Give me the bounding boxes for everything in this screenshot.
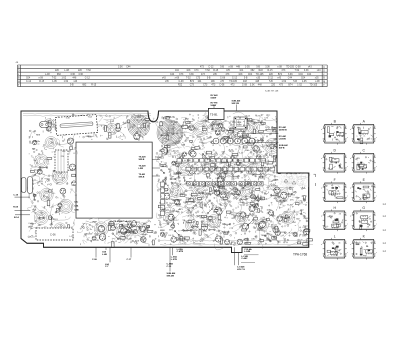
coil L1 dashed box [55, 115, 97, 136]
ref diagram C [350, 148, 377, 173]
svg-text:5-B: 5-B [220, 67, 224, 69]
svg-text:c: c [376, 137, 377, 139]
transistor can [221, 127, 225, 131]
wire leader [109, 247, 111, 262]
svg-text:TD-05: TD-05 [214, 173, 221, 175]
wire leader [237, 253, 239, 266]
svg-text:TPA-1768: TPA-1768 [293, 253, 307, 257]
parts table [18, 65, 328, 87]
svg-text:C-12: C-12 [208, 67, 214, 69]
transistor can [274, 187, 280, 193]
coil trace [281, 211, 294, 224]
pcb board outline [21, 111, 309, 253]
transistor can [224, 170, 228, 174]
svg-text:1-52: 1-52 [62, 77, 67, 79]
wire leader [171, 247, 173, 255]
transistor can [84, 123, 88, 127]
transistor can [33, 140, 37, 144]
svg-text:C04: C04 [26, 77, 31, 79]
svg-text:eb: eb [331, 162, 333, 164]
transistor can [216, 209, 222, 215]
transistor can [86, 116, 92, 122]
transistor can [297, 179, 303, 185]
svg-text:G: G [362, 206, 365, 210]
transistor can [254, 204, 258, 208]
solder pads [28, 113, 308, 245]
coil trace [157, 120, 183, 146]
svg-text:SW-5W: SW-5W [167, 275, 175, 277]
transistor can [116, 127, 121, 132]
resistor column band [161, 182, 165, 216]
svg-text:TS463: TS463 [121, 226, 128, 228]
svg-text:F: F [334, 178, 336, 182]
transistor can [241, 212, 246, 217]
coil trace [34, 154, 48, 168]
transistor can [301, 152, 306, 157]
svg-text:1-05: 1-05 [245, 67, 250, 69]
svg-text:c: c [376, 166, 377, 168]
svg-text:T5-B: T5-B [287, 205, 292, 207]
coil trace [40, 188, 53, 201]
svg-text:3.3K: 3.3K [195, 174, 200, 176]
transistor can [218, 123, 222, 127]
wire leader [15, 196, 31, 198]
svg-text:C-12: C-12 [232, 77, 238, 79]
svg-text:B-14: B-14 [14, 216, 20, 219]
svg-text:eb: eb [336, 255, 338, 257]
svg-text:T5-B: T5-B [32, 210, 37, 212]
svg-text:948B: 948B [237, 124, 242, 126]
svg-text:TD-105: TD-105 [229, 81, 237, 83]
transistor can [224, 137, 230, 143]
svg-text:a: a [356, 136, 357, 138]
svg-text:47K: 47K [242, 165, 246, 167]
transistor can [249, 206, 255, 212]
svg-text:TS463: TS463 [173, 174, 180, 176]
svg-text:x-08: x-08 [228, 67, 233, 69]
svg-text:C-12: C-12 [167, 266, 173, 268]
coil trace [117, 224, 131, 238]
svg-text:47K: 47K [260, 173, 264, 175]
svg-text:a: a [360, 217, 361, 219]
transistor can [72, 181, 77, 186]
coil trace [177, 162, 191, 176]
transistor can [233, 187, 237, 191]
svg-text:L-08: L-08 [45, 74, 50, 76]
transistor can [259, 223, 265, 229]
svg-text:C04: C04 [248, 74, 253, 76]
coil trace [164, 212, 174, 222]
svg-text:3.3K: 3.3K [273, 189, 278, 191]
svg-text:TD-105: TD-105 [310, 85, 318, 87]
svg-text:R-08: R-08 [13, 207, 19, 209]
transistor can [273, 227, 279, 233]
svg-text:SW: SW [141, 239, 144, 241]
svg-text:c: c [347, 166, 348, 168]
transistor can [237, 162, 241, 166]
svg-text:a: a [321, 188, 322, 190]
svg-text:5-B: 5-B [269, 81, 273, 83]
transistor can [215, 207, 221, 213]
coil L2 dashed box [55, 150, 68, 172]
svg-text:C44: C44 [307, 74, 312, 76]
svg-text:T-52: T-52 [186, 77, 191, 79]
transistor can [217, 177, 223, 183]
svg-text:3.3K: 3.3K [70, 74, 75, 76]
svg-text:47K: 47K [95, 240, 99, 242]
svg-text:SW: SW [118, 239, 121, 241]
svg-text:TD-05: TD-05 [173, 211, 180, 213]
coil trace [137, 223, 149, 235]
svg-text:TS463: TS463 [236, 160, 243, 162]
capacitor C-06 dashed box [36, 228, 73, 240]
svg-text:TD-105: TD-105 [286, 67, 294, 69]
coil trace [257, 219, 269, 231]
wire leader [152, 175, 160, 177]
transistor can [189, 125, 194, 130]
svg-text:TD-05: TD-05 [180, 239, 187, 241]
svg-text:a: a [321, 129, 322, 131]
svg-text:C-08: C-08 [242, 85, 248, 87]
transistor can [277, 216, 282, 221]
svg-text:L-4B: L-4B [102, 253, 107, 256]
wire leader [152, 167, 160, 169]
transistor can [298, 177, 302, 181]
svg-text:47K: 47K [226, 70, 231, 72]
ref diagram K [350, 234, 377, 259]
coil trace [245, 163, 257, 175]
svg-text:10K: 10K [245, 150, 249, 152]
svg-text:C-08: C-08 [220, 77, 226, 79]
svg-text:3.3K: 3.3K [169, 199, 174, 201]
svg-text:10K: 10K [243, 130, 247, 132]
svg-text:a: a [350, 244, 351, 246]
transistor can [225, 240, 230, 245]
transistor can [237, 239, 242, 244]
transistor TS-07 [140, 226, 146, 232]
transistor can [293, 232, 297, 236]
transistor can [182, 152, 186, 156]
svg-text:c: c [347, 252, 348, 254]
transistor can [215, 130, 220, 135]
wire leader [15, 214, 30, 216]
transistor can [189, 168, 195, 174]
svg-text:SW: SW [162, 209, 165, 211]
svg-text:C-18: C-18 [13, 195, 19, 197]
ref diagram F [321, 178, 348, 203]
svg-text:T5-B: T5-B [212, 121, 217, 123]
transistor can [67, 138, 73, 144]
wire leader [247, 133, 279, 135]
svg-text:eb: eb [338, 243, 340, 245]
ref diagram B [321, 119, 348, 144]
svg-text:3.3K: 3.3K [265, 67, 270, 69]
transistor can [215, 236, 221, 242]
svg-text:5-B: 5-B [256, 67, 260, 69]
coil trace [107, 124, 118, 135]
svg-text:T-52: T-52 [86, 70, 91, 72]
transistor can [189, 150, 195, 156]
transistor can [141, 237, 147, 243]
coil trace [34, 211, 48, 225]
transistor can [269, 211, 274, 216]
svg-text:1-52: 1-52 [282, 81, 287, 83]
svg-text:10K: 10K [247, 119, 251, 121]
transistor can [175, 163, 179, 167]
svg-text:3.3K: 3.3K [189, 74, 194, 76]
svg-text:C-12: C-12 [26, 81, 32, 83]
svg-text:1-05: 1-05 [52, 81, 57, 83]
svg-text:5-B: 5-B [207, 77, 211, 79]
svg-text:TS463: TS463 [52, 219, 59, 221]
svg-text:3.3K: 3.3K [78, 74, 83, 76]
svg-text:TS463: TS463 [86, 234, 93, 236]
svg-text:TD-05: TD-05 [50, 124, 57, 126]
svg-text:TD-05: TD-05 [31, 167, 38, 169]
svg-text:a: a [350, 216, 351, 218]
transistor can [275, 230, 280, 235]
coil trace [220, 190, 230, 200]
svg-text:a: a [321, 216, 322, 218]
svg-text:C-44C: C-44C [241, 257, 248, 260]
svg-text:TD-05: TD-05 [173, 151, 180, 153]
svg-text:a: a [332, 191, 333, 193]
transformer T5-B1 box [208, 108, 224, 119]
transistor can [66, 124, 71, 129]
transistor can [58, 203, 62, 207]
coil trace [128, 115, 150, 137]
svg-text:M: M [323, 81, 325, 83]
svg-text:10K: 10K [88, 137, 92, 139]
svg-text:C-12: C-12 [85, 77, 91, 79]
svg-text:x-08: x-08 [38, 77, 43, 79]
svg-text:a: a [321, 158, 322, 160]
svg-text:C44: C44 [126, 67, 131, 69]
svg-text:x707: x707 [92, 222, 98, 224]
svg-text:S-4B 737 x48: S-4B 737 x48 [265, 91, 279, 93]
svg-text:L: L [334, 234, 336, 238]
svg-text:R22: R22 [178, 85, 183, 87]
dial cutout window [76, 142, 152, 218]
svg-text:T-52: T-52 [52, 77, 57, 79]
trimmer row [213, 138, 255, 144]
svg-text:TS463: TS463 [187, 175, 194, 177]
svg-text:47K: 47K [290, 199, 294, 201]
svg-text:47K: 47K [251, 239, 255, 241]
svg-text:x-08: x-08 [175, 77, 180, 79]
coil trace [236, 212, 248, 224]
transistor can [253, 146, 259, 152]
transistor can [92, 236, 96, 240]
svg-text:C-12: C-12 [268, 77, 274, 79]
svg-text:c: c [347, 223, 348, 225]
svg-text:TS463: TS463 [261, 222, 268, 224]
svg-text:47K: 47K [201, 221, 205, 223]
svg-text:10K: 10K [162, 138, 166, 140]
transistor can [122, 229, 126, 233]
transistor can [242, 223, 248, 229]
svg-text:C04: C04 [301, 77, 306, 79]
transistor can [275, 144, 279, 148]
svg-text:3.3K: 3.3K [118, 67, 123, 69]
ref diagram A [350, 119, 377, 144]
svg-text:B74: B74 [190, 81, 195, 83]
electrolytic C11 [22, 178, 27, 193]
ref diagram E [350, 178, 377, 203]
svg-text:C-08: C-08 [219, 85, 225, 87]
transistor TS-06 [121, 228, 127, 234]
svg-text:a: a [321, 244, 322, 246]
resistor row band 3 [177, 159, 266, 163]
svg-text:3.3K: 3.3K [188, 216, 193, 218]
jumper wires [34, 118, 309, 243]
transistor can [281, 192, 287, 198]
coil trace [192, 187, 206, 201]
board notch whitespace [278, 105, 313, 172]
transistor can [171, 224, 175, 228]
svg-text:10K: 10K [189, 188, 193, 190]
transistor can [259, 221, 265, 227]
svg-text:A-08x: A-08x [35, 140, 41, 143]
transistor can [108, 221, 114, 227]
svg-text:T5-B: T5-B [88, 117, 93, 119]
coil trace [59, 199, 73, 213]
transistor can [214, 190, 219, 195]
component leads [29, 115, 308, 247]
table entries [26, 67, 321, 87]
svg-text:c: c [376, 252, 377, 254]
svg-text:10K: 10K [217, 186, 221, 188]
svg-text:L-08: L-08 [64, 70, 69, 72]
transistor can [190, 151, 196, 157]
resistor row band 4 [186, 167, 275, 171]
svg-text:C-08: C-08 [179, 81, 185, 83]
coil trace [44, 119, 54, 129]
svg-text:TD-05: TD-05 [34, 169, 41, 171]
svg-text:c: c [347, 195, 348, 197]
svg-text:x-08: x-08 [277, 67, 282, 69]
svg-text:TS463: TS463 [303, 218, 310, 220]
coil trace [185, 219, 197, 231]
svg-text:47K: 47K [203, 226, 207, 228]
svg-text:TD-05: TD-05 [271, 225, 278, 227]
wire leader [95, 247, 97, 257]
coil trace [265, 139, 280, 154]
coil trace [248, 122, 260, 134]
ref diagram D [321, 148, 348, 173]
svg-text:1-52: 1-52 [297, 85, 302, 87]
transistor can [251, 194, 256, 199]
resistors and capacitors [31, 117, 313, 248]
svg-text:TD-105: TD-105 [256, 74, 264, 76]
svg-text:500W B: 500W B [279, 129, 287, 131]
wire leader [152, 159, 160, 161]
svg-text:a: a [350, 129, 351, 131]
transistor can [46, 126, 51, 131]
transistor can [236, 191, 240, 195]
svg-text:10K: 10K [267, 209, 271, 211]
coil trace [274, 188, 289, 203]
transistor can [220, 173, 226, 179]
wire leader [105, 247, 107, 250]
electrolytic C12 [28, 177, 33, 194]
resistor row band 1 [187, 182, 236, 186]
transistor can [250, 138, 256, 144]
svg-text:10K: 10K [186, 70, 191, 72]
svg-text:R-15: R-15 [213, 70, 219, 72]
transistor can [223, 136, 228, 141]
margin notes [383, 204, 387, 253]
ref diagram L [321, 234, 348, 259]
transistor can [134, 134, 140, 140]
svg-text:TS463: TS463 [155, 156, 164, 160]
svg-text:C73: C73 [190, 85, 195, 87]
svg-text:5-B: 5-B [244, 77, 248, 79]
svg-text:C2B: C2B [74, 210, 79, 212]
svg-text:SW 5W: SW 5W [232, 103, 240, 105]
transistor can [127, 223, 132, 228]
coil trace [223, 165, 235, 177]
wire leader [213, 105, 215, 109]
transistor can [60, 188, 66, 194]
coil trace [207, 215, 220, 228]
coil trace [45, 137, 57, 149]
svg-text:L8V-7 H: L8V-7 H [237, 269, 245, 271]
coil trace [212, 120, 224, 132]
transistor can [69, 164, 75, 170]
svg-text:c: c [376, 223, 377, 225]
svg-text:c1: c1 [336, 139, 338, 141]
svg-text:c: c [376, 195, 377, 197]
sparse zone under step [278, 174, 308, 187]
transistor can [300, 155, 305, 160]
transistor can [220, 176, 225, 181]
wire leader [130, 247, 132, 257]
transistor can [282, 165, 286, 169]
coil trace [193, 122, 208, 137]
coil trace [281, 174, 295, 188]
svg-text:T5-B: T5-B [169, 203, 174, 205]
wire leader [236, 105, 238, 111]
corner register mark [314, 174, 316, 186]
svg-text:TS-0584 C-x4 L07: TS-0584 C-x4 L07 [113, 220, 132, 223]
svg-text:5-B: 5-B [293, 81, 297, 83]
svg-text:SW: SW [95, 235, 98, 237]
transistor can [257, 155, 261, 159]
svg-text:a: a [340, 127, 341, 129]
svg-text:R-15: R-15 [91, 85, 97, 87]
transistor can [286, 172, 291, 177]
svg-text:SW: SW [32, 149, 35, 151]
svg-text:3.3K: 3.3K [221, 173, 226, 175]
IF transformer T1 [234, 117, 247, 129]
svg-text:T5-B1: T5-B1 [210, 113, 218, 117]
svg-text:a: a [350, 158, 351, 160]
coil trace [200, 163, 212, 175]
transistor can [256, 197, 260, 201]
ref diagram H [321, 206, 348, 231]
coil trace [170, 185, 182, 197]
transistor can [220, 192, 226, 198]
svg-text:C73: C73 [203, 85, 208, 87]
resistor row band 2 [239, 182, 263, 186]
svg-text:10K: 10K [142, 235, 146, 237]
svg-text:10K: 10K [240, 202, 244, 204]
svg-text:eb: eb [331, 168, 333, 170]
transistor can [131, 221, 136, 226]
svg-text:3.3K: 3.3K [66, 118, 71, 120]
svg-text:10K: 10K [62, 151, 66, 153]
